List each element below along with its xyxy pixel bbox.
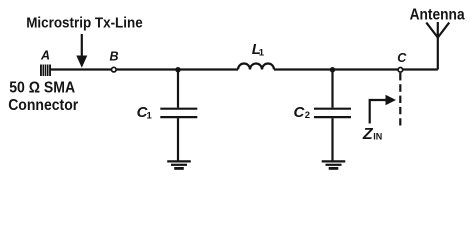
svg-text:C: C xyxy=(397,51,407,65)
svg-text:IN: IN xyxy=(373,131,382,141)
svg-text:Antenna: Antenna xyxy=(410,7,465,24)
svg-text:A: A xyxy=(40,49,50,63)
svg-text:50 Ω SMA: 50 Ω SMA xyxy=(9,80,75,97)
svg-text:Connector: Connector xyxy=(8,97,78,114)
svg-text:Z: Z xyxy=(362,126,374,143)
svg-text:B: B xyxy=(110,50,119,64)
svg-text:1: 1 xyxy=(259,48,265,59)
svg-text:2: 2 xyxy=(305,110,310,121)
svg-text:Microstrip Tx-Line: Microstrip Tx-Line xyxy=(26,16,143,32)
svg-text:C: C xyxy=(294,104,306,121)
svg-text:1: 1 xyxy=(147,111,153,122)
